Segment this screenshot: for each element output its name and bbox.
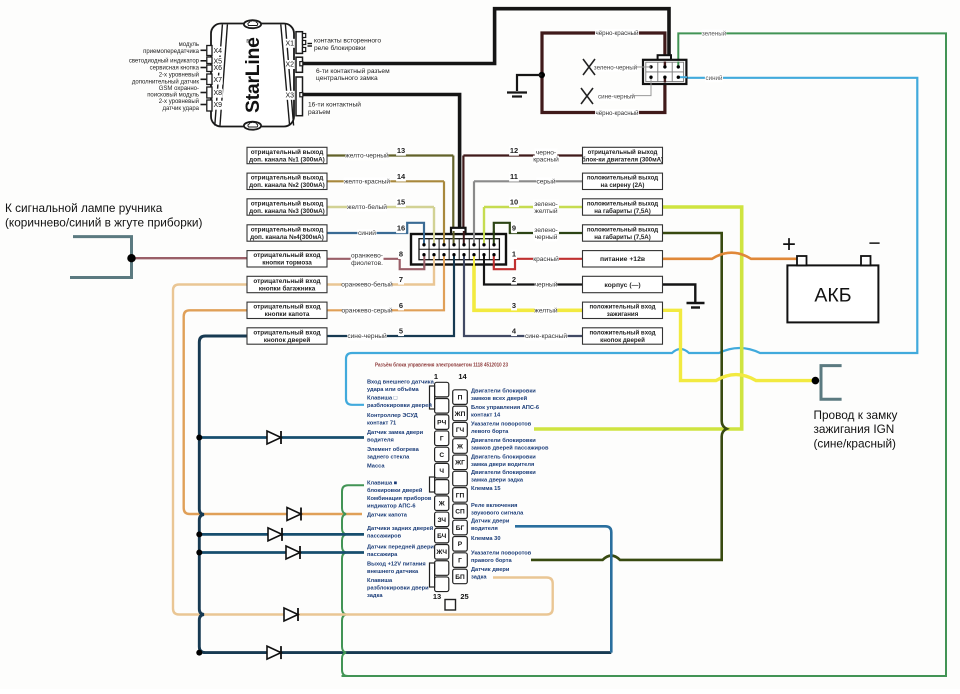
svg-text:зелено-: зелено- [534, 201, 557, 208]
svg-text:контакт 14: контакт 14 [471, 413, 501, 419]
svg-text:2: 2 [512, 275, 516, 284]
svg-text:14: 14 [397, 172, 406, 181]
svg-text:кнопок дверей: кнопок дверей [264, 336, 311, 344]
svg-text:Двигатель блокировки: Двигатель блокировки [471, 454, 536, 461]
svg-text:оранжево-серый: оранжево-серый [341, 307, 392, 315]
svg-text:на габариты (7,5А): на габариты (7,5А) [594, 208, 651, 215]
svg-text:на габариты (7,5А): на габариты (7,5А) [594, 234, 651, 241]
svg-text:зелено-: зелено- [534, 227, 557, 234]
svg-text:поисковый модуль: поисковый модуль [147, 92, 199, 99]
svg-text:индикатор АПС-6: индикатор АПС-6 [367, 504, 416, 510]
svg-text:модуль: модуль [179, 42, 199, 48]
svg-text:СП: СП [455, 509, 465, 516]
svg-text:сервисная кнопка: сервисная кнопка [150, 66, 200, 72]
svg-text:положительный выход: положительный выход [587, 175, 658, 182]
svg-text:контакты всторенного: контакты всторенного [314, 38, 381, 45]
svg-text:замков всех дверей: замков всех дверей [471, 395, 528, 402]
svg-text:красный: красный [533, 156, 559, 164]
svg-text:Двигатели блокировки: Двигатели блокировки [471, 437, 536, 444]
svg-text:отрицательный вход: отрицательный вход [253, 277, 320, 285]
svg-text:БГ: БГ [456, 525, 465, 532]
svg-text:светодиодный индикатор: светодиодный индикатор [129, 58, 200, 65]
svg-text:П: П [458, 395, 463, 402]
svg-text:желто-черный: желто-черный [345, 152, 389, 160]
svg-text:дополнительный датчик: дополнительный датчик [132, 78, 199, 85]
svg-text:внешнего датчика: внешнего датчика [367, 569, 419, 575]
svg-text:ЖЧ: ЖЧ [435, 549, 447, 556]
svg-text:отрицательный выход: отрицательный выход [251, 225, 324, 233]
svg-text:Указатели поворотов: Указатели поворотов [471, 422, 532, 428]
svg-text:синий: синий [358, 229, 376, 237]
svg-text:Клемма 30: Клемма 30 [471, 536, 501, 542]
svg-text:Клавиша: Клавиша [367, 578, 393, 584]
svg-text:контакт 71: контакт 71 [367, 421, 396, 427]
svg-text:фиолетов.: фиолетов. [351, 260, 383, 267]
svg-text:сине-черный: сине-черный [347, 332, 387, 340]
svg-text:ЖП: ЖП [454, 411, 466, 418]
svg-text:зажигания IGN: зажигания IGN [814, 422, 895, 436]
svg-text:положительный выход: положительный выход [587, 226, 658, 233]
svg-text:зелено-черный: зелено-черный [594, 64, 638, 71]
svg-text:отрицательный выход: отрицательный выход [251, 148, 324, 156]
svg-text:С: С [439, 452, 444, 459]
svg-text:Г: Г [458, 558, 462, 565]
svg-text:Выход +12V питания: Выход +12V питания [367, 562, 426, 568]
svg-text:14: 14 [458, 372, 467, 381]
svg-text:Блок управления АПС-6: Блок управления АПС-6 [471, 405, 539, 411]
svg-text:разблокировки двери: разблокировки двери [367, 585, 429, 592]
svg-text:Ж: Ж [456, 443, 463, 450]
svg-text:чёрно-красный: чёрно-красный [595, 110, 639, 117]
svg-text:желто-белый: желто-белый [347, 203, 387, 211]
svg-text:блок-ки двигателя (300мА): блок-ки двигателя (300мА) [582, 156, 663, 163]
svg-text:красный: красный [533, 255, 559, 263]
svg-text:15: 15 [397, 198, 405, 207]
svg-text:отрицательный вход: отрицательный вход [253, 328, 320, 336]
svg-text:заднего стекла: заднего стекла [367, 455, 410, 461]
svg-text:6: 6 [399, 301, 403, 310]
svg-text:замка двери водителя: замка двери водителя [471, 462, 534, 468]
svg-text:2-х уровневый: 2-х уровневый [159, 98, 199, 105]
svg-text:БП: БП [455, 574, 465, 581]
svg-text:кнопок дверей: кнопок дверей [600, 337, 645, 344]
svg-text:X3: X3 [286, 92, 295, 99]
svg-text:+: + [782, 231, 796, 258]
svg-text:на сирену (2А): на сирену (2А) [601, 182, 645, 189]
svg-text:Комбинация приборов: Комбинация приборов [367, 495, 432, 502]
svg-text:X8: X8 [214, 90, 223, 97]
svg-text:1: 1 [434, 372, 438, 381]
svg-text:2-х уровневый: 2-х уровневый [159, 71, 199, 78]
svg-text:синий: синий [706, 75, 723, 82]
svg-text:Датчики задних дверей: Датчики задних дверей [367, 525, 434, 532]
svg-text:®: ® [246, 38, 250, 45]
svg-text:центрального замка: центрального замка [316, 75, 378, 82]
svg-text:Датчик двери: Датчик двери [471, 519, 510, 525]
svg-text:(коричнево/синий в жгуте прибо: (коричнево/синий в жгуте приборки) [5, 215, 203, 229]
svg-text:удара или объёма: удара или объёма [367, 386, 420, 393]
svg-text:Клавиша □: Клавиша □ [367, 396, 398, 402]
svg-text:X4: X4 [214, 48, 223, 55]
svg-text:отрицательный вход: отрицательный вход [253, 303, 320, 311]
svg-text:Провод к замку: Провод к замку [814, 408, 898, 422]
svg-text:Г: Г [440, 436, 444, 443]
svg-text:Ж: Ж [438, 501, 445, 508]
svg-text:5: 5 [399, 327, 403, 336]
svg-text:Двигатели блокировки: Двигатели блокировки [471, 469, 536, 476]
svg-text:X1: X1 [286, 40, 295, 47]
svg-text:кнопки багажника: кнопки багажника [259, 284, 316, 292]
svg-text:7: 7 [399, 275, 403, 284]
svg-text:замка двери задка: замка двери задка [471, 478, 524, 484]
svg-text:водителя: водителя [367, 438, 394, 444]
svg-text:оранжево-белый: оранжево-белый [341, 281, 393, 289]
svg-text:задка: задка [471, 575, 487, 581]
svg-text:питание +12в: питание +12в [600, 256, 645, 263]
svg-text:желто-красный: желто-красный [344, 178, 390, 186]
svg-text:Указатели поворотов: Указатели поворотов [471, 551, 532, 557]
svg-text:разъем: разъем [308, 109, 331, 116]
svg-text:11: 11 [510, 172, 518, 181]
svg-text:БЧ: БЧ [437, 533, 446, 540]
svg-text:Реле включения: Реле включения [471, 503, 517, 509]
svg-text:черно-: черно- [536, 149, 556, 156]
svg-text:Ч: Ч [439, 468, 444, 475]
svg-text:левого борта: левого борта [471, 428, 509, 435]
svg-text:кнопки капота: кнопки капота [265, 311, 310, 318]
svg-text:ГЧ: ГЧ [456, 427, 465, 434]
svg-text:серый: серый [536, 178, 555, 186]
svg-text:X7: X7 [214, 77, 223, 84]
svg-text:X6: X6 [214, 65, 223, 72]
svg-text:доп. канала №4(300мА): доп. канала №4(300мА) [250, 234, 324, 241]
svg-text:доп. канала №1 (300мА): доп. канала №1 (300мА) [249, 156, 325, 163]
svg-text:чёрно-красный: чёрно-красный [595, 30, 639, 37]
svg-text:Датчик капота: Датчик капота [367, 513, 408, 519]
svg-text:10: 10 [510, 198, 518, 207]
svg-text:пассажиров: пассажиров [367, 534, 402, 540]
svg-text:Вход внешнего датчика: Вход внешнего датчика [367, 380, 435, 386]
svg-text:13: 13 [397, 146, 405, 155]
svg-text:желтый: желтый [534, 307, 557, 315]
svg-text:реле блокировки: реле блокировки [314, 44, 366, 52]
svg-text:(сине/красный): (сине/красный) [814, 436, 897, 450]
svg-text:отрицательный выход: отрицательный выход [251, 199, 324, 207]
svg-text:StarLine: StarLine [242, 37, 264, 113]
svg-text:13: 13 [433, 592, 441, 601]
svg-text:положительный вход: положительный вход [589, 304, 655, 311]
svg-text:водителя: водителя [471, 526, 498, 532]
svg-text:ЖГ: ЖГ [454, 460, 465, 467]
svg-text:Контроллер ЭСУД: Контроллер ЭСУД [367, 413, 418, 419]
svg-text:блокировки дверей: блокировки дверей [367, 487, 423, 494]
svg-text:Датчик передней двери: Датчик передней двери [367, 544, 434, 551]
svg-text:Двигатели блокировки: Двигатели блокировки [471, 388, 536, 395]
svg-text:−: − [868, 232, 880, 255]
svg-text:пассажира: пассажира [367, 552, 398, 558]
svg-text:Р: Р [458, 541, 463, 548]
svg-text:положительный вход: положительный вход [589, 329, 655, 336]
svg-text:АКБ: АКБ [814, 285, 851, 307]
svg-text:ЗЧ: ЗЧ [437, 517, 446, 524]
svg-text:желтый: желтый [534, 207, 557, 215]
svg-text:сине-черный: сине-черный [598, 93, 635, 100]
svg-text:приемопередатчика: приемопередатчика [143, 49, 200, 55]
svg-text:Масса: Масса [367, 464, 385, 470]
svg-text:К сигнальной лампе ручника: К сигнальной лампе ручника [5, 201, 163, 215]
svg-text:датчик удара: датчик удара [162, 106, 199, 112]
svg-text:ГП: ГП [456, 492, 465, 499]
svg-text:черный: черный [535, 233, 558, 241]
svg-text:8: 8 [399, 249, 403, 258]
svg-text:9: 9 [512, 224, 516, 233]
svg-text:зеленый: зеленый [702, 30, 727, 37]
svg-text:25: 25 [460, 592, 468, 601]
svg-text:6-ти контактный разъем: 6-ти контактный разъем [316, 67, 390, 75]
svg-text:отрицательный выход: отрицательный выход [251, 174, 324, 182]
svg-text:задка: задка [367, 593, 383, 599]
svg-text:кнопки тормоза: кнопки тормоза [262, 260, 312, 267]
svg-text:разблокировки дверей: разблокировки дверей [367, 402, 432, 409]
svg-text:3: 3 [512, 301, 516, 310]
svg-text:оранжево-: оранжево- [351, 253, 383, 260]
svg-text:доп. канала №3 (300мА): доп. канала №3 (300мА) [249, 208, 325, 215]
svg-text:X9: X9 [214, 102, 223, 109]
svg-text:отрицательный выход: отрицательный выход [588, 149, 658, 156]
svg-text:Элемент обогрева: Элемент обогрева [367, 446, 420, 453]
svg-text:16: 16 [397, 224, 405, 233]
svg-text:зажигания: зажигания [607, 311, 639, 318]
svg-text:12: 12 [510, 146, 518, 155]
svg-text:Клемма 15: Клемма 15 [471, 486, 501, 492]
svg-text:X2: X2 [286, 62, 295, 69]
svg-text:корпус (—): корпус (—) [604, 282, 640, 289]
svg-text:Разъём блока управления электр: Разъём блока управления электропакетом 1… [375, 362, 508, 369]
svg-text:отрицательный вход: отрицательный вход [253, 251, 320, 259]
svg-text:доп. канала №2 (300мА): доп. канала №2 (300мА) [249, 182, 325, 189]
svg-text:замков дверей пассажиров: замков дверей пассажиров [471, 445, 549, 452]
svg-text:Датчик замка двери: Датчик замка двери [367, 430, 424, 436]
svg-text:правого борта: правого борта [471, 557, 512, 564]
svg-text:GSM охранно-: GSM охранно- [159, 86, 199, 92]
svg-text:черный: черный [535, 281, 558, 289]
svg-text:1: 1 [512, 249, 516, 258]
svg-text:Клавиша ■: Клавиша ■ [367, 481, 398, 487]
svg-text:положительный выход: положительный выход [587, 200, 658, 207]
svg-text:РЧ: РЧ [437, 419, 446, 426]
svg-text:звукового сигнала: звукового сигнала [471, 511, 524, 517]
svg-text:Датчик двери: Датчик двери [471, 567, 510, 573]
svg-text:сине-красный: сине-красный [525, 332, 567, 340]
svg-text:16-ти контактный: 16-ти контактный [308, 101, 361, 109]
